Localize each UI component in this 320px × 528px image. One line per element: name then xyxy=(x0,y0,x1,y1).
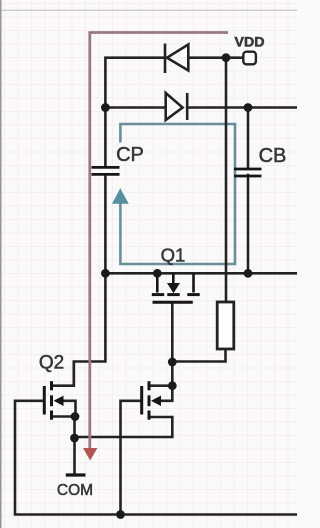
svg-text:COM: COM xyxy=(57,482,93,499)
wire Q2 source to Q3 source xyxy=(75,417,173,439)
annotation teal loop xyxy=(120,124,235,264)
transistor Q3 xyxy=(142,381,173,420)
channel segments xyxy=(50,381,53,420)
wire Q1 gate down xyxy=(171,304,174,386)
annotation teal arrow xyxy=(112,188,129,204)
resistor R1 xyxy=(217,302,234,349)
transistor Q2 xyxy=(44,362,75,420)
capacitor CB xyxy=(234,169,262,176)
svg-text:CB: CB xyxy=(259,145,287,167)
capacitor CP xyxy=(92,167,120,174)
annotation red arrowhead xyxy=(83,448,97,461)
wire Q2 source to ground xyxy=(73,438,76,473)
junction nodes xyxy=(70,53,252,519)
wire CB top lead xyxy=(247,108,250,168)
wire D2 to right edge xyxy=(187,106,297,109)
svg-text:Q1: Q1 xyxy=(161,245,186,266)
wire D2 left xyxy=(105,106,164,109)
body arrow xyxy=(54,396,64,406)
top border grid line xyxy=(0,10,297,11)
terminal VDD xyxy=(243,52,256,65)
leads xyxy=(150,386,172,417)
wire CB bottom lead xyxy=(247,175,250,273)
svg-text:Q2: Q2 xyxy=(39,353,64,374)
gate plate xyxy=(43,386,46,415)
channel segments xyxy=(148,381,151,420)
wire CP bottom lead down to Q2 drain xyxy=(74,175,106,386)
transistor Q1 xyxy=(152,273,200,302)
leads xyxy=(53,362,76,417)
wire resistor bottom to Q1 gate node xyxy=(172,349,225,362)
wire Q2 gate to bottom rail xyxy=(15,401,297,515)
wire Q1 drain rail xyxy=(105,272,297,275)
annotation red path xyxy=(90,33,228,449)
diode D1 xyxy=(165,44,188,74)
wire D1 to VDD node xyxy=(188,56,243,59)
wire top-left corner to D1 xyxy=(105,58,165,167)
svg-text:VDD: VDD xyxy=(235,35,265,51)
diode D2 xyxy=(166,93,188,120)
gate plate xyxy=(140,386,143,415)
wire VDD node down to resistor xyxy=(225,58,228,302)
ground COM xyxy=(66,473,86,476)
left screen edge line xyxy=(0,0,2,528)
wire Q3 gate down xyxy=(121,401,141,515)
svg-text:CP: CP xyxy=(116,144,144,166)
body arrow xyxy=(151,396,161,406)
